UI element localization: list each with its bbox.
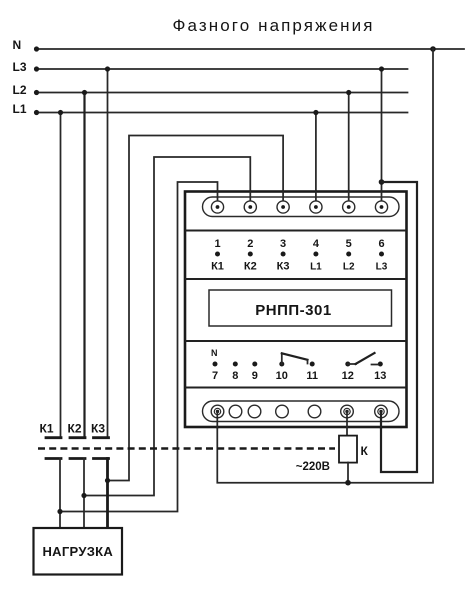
svg-text:9: 9 bbox=[252, 370, 258, 382]
wire stub terminal 7 bottom bbox=[216, 412, 218, 429]
contactor contact K3 bbox=[94, 438, 109, 528]
svg-text:8: 8 bbox=[232, 370, 238, 382]
label contactor K3 bbox=[91, 422, 105, 436]
terminal 5 bbox=[343, 201, 355, 213]
node K3 load junction bbox=[105, 478, 110, 483]
label load bbox=[42, 544, 113, 559]
svg-text:7: 7 bbox=[212, 370, 218, 382]
label contactor K1 bbox=[40, 422, 54, 436]
svg-text:11: 11 bbox=[306, 370, 318, 382]
wire terminal 2 to contact K2 output bbox=[85, 157, 251, 496]
svg-text:L2: L2 bbox=[343, 262, 355, 273]
node K2 load junction bbox=[81, 493, 86, 498]
coil K box bbox=[339, 436, 357, 463]
wire L1 drop to contact K1 bbox=[60, 113, 62, 438]
top terminal strip bbox=[203, 197, 400, 217]
separator line 2 bbox=[185, 278, 407, 280]
svg-text:Фазного напряжения: Фазного напряжения bbox=[172, 16, 374, 35]
separator line 4 bbox=[185, 386, 407, 388]
svg-text:~220В: ~220В bbox=[296, 461, 330, 473]
device RNPP-301 body bbox=[185, 192, 407, 428]
label ~220V bbox=[296, 461, 330, 473]
terminal 12 bottom bbox=[341, 405, 354, 418]
svg-text:6: 6 bbox=[378, 238, 384, 250]
terminal 10 bottom bbox=[276, 405, 289, 418]
terminal 11 bottom bbox=[308, 405, 321, 418]
wire L3 drop to contact K3 bbox=[107, 69, 109, 437]
wire N to terminal 7 bbox=[217, 412, 348, 483]
dashed linkage line bbox=[38, 447, 335, 449]
node N drop bbox=[430, 46, 436, 52]
contactor contact K1 bbox=[46, 438, 61, 528]
node L2 drop bbox=[82, 90, 87, 95]
svg-text:N: N bbox=[211, 348, 218, 358]
svg-text:К3: К3 bbox=[277, 261, 290, 273]
pin dots 1-6 bbox=[215, 252, 384, 257]
wire L3 to terminal 13 bbox=[381, 182, 417, 472]
wire stubs terminals 1-6 bbox=[218, 191, 382, 207]
terminal 7 bottom bbox=[211, 405, 224, 418]
terminal 6 bbox=[375, 201, 387, 213]
svg-text:L3: L3 bbox=[13, 60, 27, 74]
svg-text:К: К bbox=[361, 444, 369, 458]
svg-text:3: 3 bbox=[280, 238, 286, 250]
terminal 3 bbox=[277, 201, 289, 213]
svg-text:13: 13 bbox=[374, 370, 386, 382]
terminal 4 bbox=[310, 201, 322, 213]
wire N drop right side bbox=[348, 49, 433, 483]
wire terminal 12 to coil K bbox=[346, 412, 348, 436]
svg-text:2: 2 bbox=[247, 238, 253, 250]
node K1 load junction bbox=[57, 509, 62, 514]
wire L2 to terminal 5 bbox=[348, 93, 350, 208]
node L3 branch to contact 13 bbox=[379, 179, 385, 185]
svg-text:К1: К1 bbox=[40, 422, 54, 436]
svg-text:НАГРУЗКА: НАГРУЗКА bbox=[42, 544, 113, 559]
terminal 13 bottom bbox=[375, 405, 388, 418]
svg-text:12: 12 bbox=[342, 370, 354, 382]
svg-text:10: 10 bbox=[276, 370, 288, 382]
node L1 drop bbox=[58, 110, 63, 115]
bus L2 bbox=[34, 90, 408, 95]
svg-text:L2: L2 bbox=[13, 83, 27, 97]
node L3 terminal 6 bbox=[379, 66, 384, 71]
svg-text:К1: К1 bbox=[211, 261, 224, 273]
svg-text:К2: К2 bbox=[244, 261, 257, 273]
label L3 bbox=[13, 60, 27, 74]
title bbox=[172, 16, 374, 35]
wire L2 drop to contact K2 bbox=[83, 93, 85, 438]
device name box bbox=[209, 290, 392, 326]
svg-text:К2: К2 bbox=[68, 422, 82, 436]
contactor contact K2 bbox=[70, 438, 85, 528]
label N pin 7 bbox=[211, 348, 218, 358]
bus N bbox=[34, 46, 464, 51]
wire L1 to terminal 4 bbox=[315, 113, 317, 208]
label N bbox=[13, 38, 22, 52]
node L3 drop bbox=[105, 66, 110, 71]
svg-text:L1: L1 bbox=[310, 262, 322, 273]
bus L1 bbox=[34, 110, 408, 115]
terminal 2 bbox=[244, 201, 256, 213]
device name text RNPP-301 bbox=[255, 302, 331, 319]
terminal 1 bbox=[211, 201, 223, 213]
relay contact 10-11 bbox=[282, 353, 308, 364]
svg-text:L1: L1 bbox=[13, 102, 27, 116]
terminal 9 bottom bbox=[248, 405, 261, 418]
pin numbers 7-13 bbox=[212, 370, 386, 382]
separator line 3 bbox=[185, 340, 407, 342]
svg-text:5: 5 bbox=[346, 238, 352, 250]
wire terminal 3 to contact K3 output bbox=[108, 136, 284, 481]
label L2 bbox=[13, 83, 27, 97]
label L1 bbox=[13, 102, 27, 116]
pin dots 7-13 bbox=[213, 362, 383, 367]
svg-text:РНПП-301: РНПП-301 bbox=[255, 302, 331, 319]
svg-text:4: 4 bbox=[313, 238, 320, 250]
wire coil K to N bbox=[347, 463, 349, 483]
pin numbers 1-6 bbox=[214, 238, 384, 250]
pin labels K1 K2 K3 L1 L2 L3 bbox=[211, 261, 388, 273]
separator line 1 bbox=[185, 229, 407, 231]
wire L3 to terminal 6 bbox=[381, 69, 383, 207]
svg-text:К3: К3 bbox=[91, 422, 105, 436]
label contactor K2 bbox=[68, 422, 82, 436]
svg-text:1: 1 bbox=[214, 238, 220, 250]
bottom terminal strip bbox=[203, 401, 400, 422]
node L2 terminal 5 bbox=[346, 90, 351, 95]
node coil N junction bbox=[345, 480, 351, 486]
terminal 8 bottom bbox=[229, 405, 242, 418]
node L1 terminal 4 bbox=[313, 110, 318, 115]
label K coil bbox=[361, 444, 369, 458]
svg-text:L3: L3 bbox=[376, 262, 388, 273]
svg-text:N: N bbox=[13, 38, 22, 52]
load box bbox=[34, 528, 123, 575]
wire terminal 1 to contact K1 output bbox=[61, 182, 218, 512]
bus L3 bbox=[34, 66, 408, 71]
relay contact 12-13 bbox=[348, 353, 378, 365]
wire stub terminal 13 bottom bbox=[380, 412, 382, 429]
